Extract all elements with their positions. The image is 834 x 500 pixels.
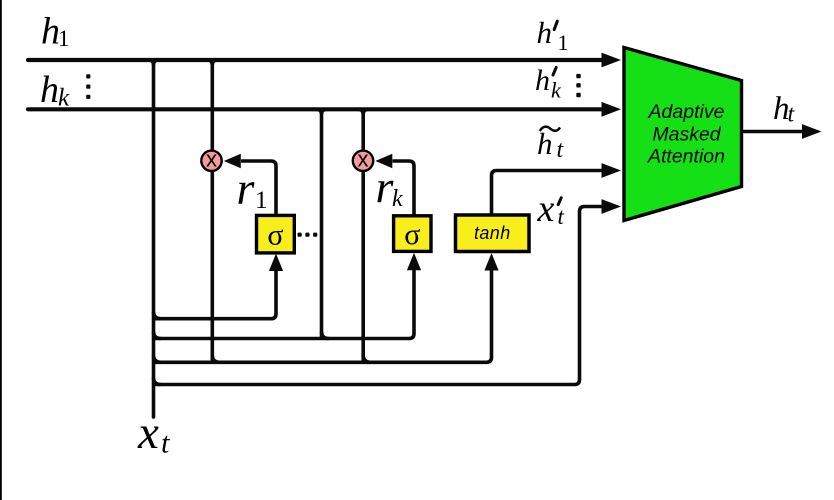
svg-text:h: h: [537, 15, 553, 50]
wire r1 from sigma1 output to multiplier 1: [241, 161, 276, 216]
svg-text:k: k: [551, 77, 562, 102]
arrowhead x't into attention: [602, 199, 622, 214]
junction fillets where verticals branch from lines: [149, 60, 371, 385]
svg-text:k: k: [58, 85, 70, 112]
svg-text:1: 1: [558, 30, 569, 55]
attention block label: [647, 101, 725, 167]
sigma2 box: [394, 216, 431, 252]
arrowhead into tanh bottom: [484, 253, 498, 270]
vertical ellipsis dots after h'k label: [576, 74, 580, 97]
tanh box: [456, 215, 530, 252]
svg-text:Attention: Attention: [647, 146, 725, 168]
svg-text:h: h: [535, 64, 550, 97]
arrowhead r1 into multiplier 1: [224, 154, 241, 168]
svg-text:1: 1: [58, 26, 70, 51]
wire hk horizontal line: [28, 107, 602, 111]
arrowhead rk into multiplier 2: [375, 154, 392, 168]
arrowhead into sigma2 bottom: [407, 253, 421, 270]
svg-text:x: x: [137, 407, 159, 459]
wire vertical D from hk line through multiplier 2 to bus 3: [361, 109, 365, 362]
wire vertical C from hk line to bus 2: [320, 109, 324, 338]
svg-text:1: 1: [255, 187, 268, 214]
attention trapezoid block: [624, 48, 742, 221]
arrowhead h~t into attention: [602, 163, 622, 178]
svg-text:t: t: [558, 204, 565, 229]
svg-text:r: r: [237, 163, 256, 214]
svg-text:t: t: [161, 427, 170, 460]
horizontal ellipsis dots after sigma1: [298, 233, 318, 237]
svg-text:h: h: [537, 126, 553, 161]
svg-text:Adaptive: Adaptive: [648, 101, 725, 123]
wire ht output of attention: [743, 130, 804, 134]
left border line: [0, 0, 2, 500]
arrowhead into sigma1 bottom: [269, 254, 283, 271]
multiplier 1 circle: [201, 151, 221, 171]
arrowhead ht output: [802, 124, 822, 139]
wire h1 horizontal line: [28, 58, 602, 62]
svg-text:tanh: tanh: [474, 223, 511, 243]
svg-text:x: x: [206, 147, 217, 172]
arrowhead h'k into attention: [602, 102, 622, 117]
svg-text:Masked: Masked: [652, 123, 721, 145]
wire bus 1 from A to sigma1 input: [154, 267, 277, 319]
svg-text:k: k: [392, 186, 403, 212]
sigma1 box: [257, 215, 295, 253]
wire bus 4 from A to x't input of attention: [154, 207, 604, 385]
vertical ellipsis dots after hk label: [86, 74, 90, 99]
svg-text:σ: σ: [404, 218, 420, 251]
svg-text:h: h: [40, 69, 59, 111]
wire vertical B from h1 line through multiplier 1 to bus 3: [211, 60, 215, 362]
svg-text:σ: σ: [267, 219, 283, 252]
svg-text:x: x: [537, 188, 555, 230]
wire h~t from tanh output to attention: [492, 171, 604, 216]
arrowhead h'1 into attention: [602, 53, 622, 68]
wire bus 2 from A to sigma2 input: [154, 266, 415, 339]
wire rk from sigma2 output to multiplier 2: [393, 161, 415, 216]
wire vertical A from h1 line down to xt stem: [152, 60, 156, 417]
multiplier 2 circle: [353, 151, 373, 171]
wire bus 3 from A to tanh input: [154, 267, 492, 363]
svg-text:x: x: [358, 147, 369, 172]
